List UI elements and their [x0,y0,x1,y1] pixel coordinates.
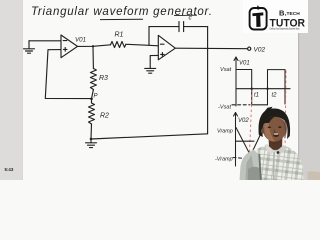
ground G1 stub [28,41,30,49]
graph1 t axis horizontal [236,88,290,90]
bottom right beige object [308,171,320,180]
svg-text:5:43: 5:43 [5,167,14,172]
ground G1 wire to op-amp U1 minus input [29,40,61,42]
hair quiff [263,107,273,114]
svg-text:V01: V01 [75,37,86,44]
wire capacitor top left segment [149,26,179,28]
wire ground junction to V02 feedback vertical [91,134,208,139]
svg-text:V02: V02 [254,47,266,54]
junction dot V01 node [92,45,94,47]
resistor R2 zigzag [89,103,95,124]
resistor R1 zigzag [111,42,126,48]
title underline [100,18,143,20]
title underline 2 [174,14,197,16]
sidebar edge line [21,0,23,180]
wire vertical V02 branch [207,27,209,134]
op-amp U2 plus symbol [161,53,165,55]
terminal V02 circle [248,47,251,50]
hair fringe [263,117,275,125]
mic [277,151,280,154]
svg-text:Vsat: Vsat [220,67,232,73]
shirt placket [273,152,276,180]
svg-text:TECH: TECH [287,11,301,17]
svg-text:R3: R3 [99,75,108,82]
graph1 dot t1 [251,88,253,90]
arm sleeve [240,150,261,181]
chin shadow [269,140,282,144]
svg-text:R1: R1 [115,32,124,39]
graph1 square wave [236,70,285,105]
graph2 t axis horizontal [236,140,255,142]
wire U2 output to terminal [175,47,247,50]
wire U1 output to R1 [78,45,111,47]
whiteboard background [0,0,320,180]
mouth open [273,133,279,137]
svg-text:V02: V02 [238,118,249,124]
left gray sidebar [0,0,22,180]
wire U2 plus input to ground G3 [150,55,158,68]
neck [269,135,283,150]
logo T apostrophe [257,5,259,9]
logo overlay background [243,0,308,33]
red dashed line t1 [249,90,252,158]
wire V01 node down to R3 [92,46,94,68]
ground G1 bars [24,48,35,50]
svg-text:-Vramp: -Vramp [215,157,233,163]
capacitor C plates [183,22,185,32]
op-amp U1 minus symbol [63,40,67,42]
resistor R3 zigzag [90,69,96,90]
logo T glyph [252,12,263,27]
wire capacitor top right segment [184,26,208,28]
graph1 V01 axis vertical with arrow [232,57,290,106]
op-amp U1 triangle [61,35,78,58]
svg-text:P: P [94,94,98,100]
wire R2 to ground junction [90,124,93,139]
graph2 triangular wave [236,127,284,156]
svg-text:t2: t2 [272,93,278,99]
op-amp U2 triangle [158,35,175,60]
face [263,116,286,141]
nose shadow [273,129,276,134]
junction dot node P [90,98,93,101]
svg-text:Vramp: Vramp [217,129,233,135]
wire R1 to op-amp U2 minus input [126,44,159,46]
wire feedback tap down to U2 minus input [148,27,150,46]
svg-text:-Vsat: -Vsat [218,105,232,111]
hair [259,109,291,140]
svg-text:R2: R2 [100,113,109,120]
ear left [261,128,264,133]
wire node P to R2 [91,99,93,103]
person presenter [240,107,304,180]
ground G2 bars [86,142,97,144]
graph2 V02 axis vertical with arrow [233,113,284,167]
whiteboard right edge line [298,0,300,180]
svg-text:V01: V01 [239,61,250,67]
graph1 -Vsat dashed level [232,104,250,106]
eyes [268,127,271,129]
face right shadow [281,119,287,140]
op-amp U1 plus symbol [63,48,67,50]
ground G3 bars [145,67,156,69]
svg-text:Triangular waveform generator.: Triangular waveform generator. [31,6,213,18]
face light side [264,121,275,142]
svg-text:Crafting Your Engineering Succ: Crafting Your Engineering Success Story [270,28,301,31]
torso shirt [246,144,304,180]
collar [266,145,276,155]
red dashed line t2 [285,71,286,151]
logo rounded square [250,8,267,30]
wire U1 plus input feedback from node P [45,50,91,99]
op-amp U2 minus symbol [160,43,164,45]
right wall [299,0,320,180]
svg-text:t1: t1 [254,93,259,99]
svg-text:B.: B. [279,9,287,18]
junction dot ground junction [90,138,93,141]
wire R3 to node P [92,90,94,99]
graph1 dot t2 [266,88,268,90]
graph2 -Vramp dashed level [233,158,246,159]
